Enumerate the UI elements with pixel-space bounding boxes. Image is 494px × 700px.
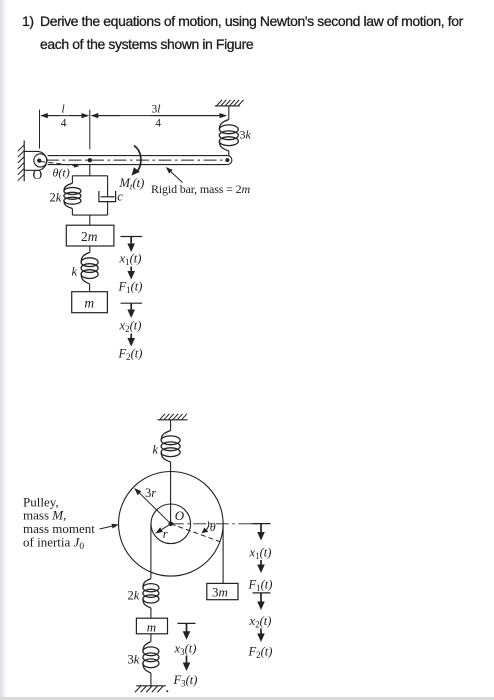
pulley inner circle xyxy=(151,504,191,544)
label F1(t) (top figure) xyxy=(118,280,143,296)
label F1(t) (bottom figure) xyxy=(248,577,273,593)
label 2k (bottom figure) xyxy=(128,589,140,603)
label r xyxy=(163,527,168,541)
theta rotation arrow xyxy=(202,522,209,534)
svg-text:4: 4 xyxy=(155,118,161,130)
wire spring 2k to mass m xyxy=(150,608,152,618)
label F2(t) (top figure) xyxy=(118,347,143,363)
arrow F3 xyxy=(183,656,191,672)
pivot pin circle O xyxy=(34,154,47,167)
spring 2k (bottom figure) xyxy=(143,579,159,608)
cord pulley inner radius to spring 2k xyxy=(150,524,152,579)
node on bar at l/4 xyxy=(88,158,92,162)
pulley center dot xyxy=(169,522,174,527)
svg-text:m: m xyxy=(147,619,156,634)
spring 3k xyxy=(219,120,238,152)
arrow F2 (bottom figure) xyxy=(257,629,265,643)
dimension line l/4 with arrows xyxy=(40,113,89,118)
label x2(t) (bottom figure) xyxy=(249,614,272,630)
mass block 3m xyxy=(207,583,238,599)
ground support hatching xyxy=(135,686,168,693)
wire node to assembly xyxy=(89,165,91,176)
label x1(t) (bottom figure) xyxy=(249,546,272,562)
svg-text:4: 4 xyxy=(61,118,67,130)
svg-text:3l: 3l xyxy=(152,104,161,116)
svg-text:2k: 2k xyxy=(50,191,62,205)
wire ceiling to spring k xyxy=(170,420,172,431)
label theta(t) xyxy=(53,166,70,180)
svg-text:r: r xyxy=(163,527,168,541)
arrow F1 (top figure) xyxy=(127,267,135,280)
damper cylinder cup xyxy=(99,191,116,202)
label x1(t) (top figure) xyxy=(119,252,142,268)
label F3(t) xyxy=(173,673,198,689)
wire assembly to mass 2m xyxy=(89,215,91,225)
svg-text:k: k xyxy=(72,264,78,278)
svg-text:F1(t): F1(t) xyxy=(118,280,143,296)
left leg to spring 2k xyxy=(71,176,73,183)
label fraction l/4 xyxy=(61,104,67,130)
svg-text:x1(t): x1(t) xyxy=(249,546,272,562)
dimension tick at l/4 point xyxy=(89,110,91,150)
label 2k xyxy=(50,191,62,205)
wire ceiling to spring 3k xyxy=(228,106,230,120)
svg-text:x1(t): x1(t) xyxy=(119,252,142,268)
svg-text:x2(t): x2(t) xyxy=(119,319,142,335)
wire spring k to mass m xyxy=(89,284,91,292)
svg-text:Rigid bar, mass = 2m: Rigid bar, mass = 2m xyxy=(151,182,250,196)
label 3m xyxy=(212,585,228,600)
arrow F2 (top figure) xyxy=(127,334,135,347)
svg-text:3r: 3r xyxy=(145,486,156,500)
svg-text:of inertia J0: of inertia J0 xyxy=(23,535,84,553)
horizontal reference dash-dot line xyxy=(171,523,258,525)
label c xyxy=(117,190,123,204)
label O xyxy=(33,167,43,182)
svg-text:θ(t): θ(t) xyxy=(53,166,70,180)
svg-text:m: m xyxy=(84,296,94,311)
label theta xyxy=(210,520,216,534)
problem statement text xyxy=(22,13,34,29)
label Rigid bar, mass = 2m xyxy=(151,182,250,196)
pulley outer circle xyxy=(119,472,224,577)
ceiling support (bottom figure) xyxy=(158,414,188,420)
label k (top figure) xyxy=(72,264,78,278)
assembly bottom rail xyxy=(72,214,107,216)
bottom page-edge shading xyxy=(0,697,494,700)
radius arrow r xyxy=(155,524,171,534)
label 2m xyxy=(81,229,98,244)
mass block m xyxy=(72,292,108,313)
pointer arrow to pulley xyxy=(100,524,119,529)
left page-edge shading xyxy=(0,0,7,700)
svg-text:O: O xyxy=(175,508,185,523)
label m xyxy=(84,296,94,311)
radius arrow 3r xyxy=(134,488,171,524)
cord pulley outer radius to mass 3m xyxy=(222,524,224,584)
left leg below spring 2k xyxy=(71,209,73,216)
label x3(t) xyxy=(174,642,197,658)
wire spring 3k to ground xyxy=(150,673,152,686)
label 3k xyxy=(240,128,252,142)
datum line for x2 (bottom figure) xyxy=(253,592,271,594)
mass block m (bottom figure) xyxy=(136,618,167,634)
label M_t(t) xyxy=(119,176,145,192)
spring 3k (bottom figure) xyxy=(143,642,159,673)
svg-text:c: c xyxy=(117,190,123,204)
svg-text:3k: 3k xyxy=(240,128,252,142)
arrow x1 (top figure) xyxy=(127,237,135,253)
arrow x2 (bottom figure) xyxy=(257,593,265,610)
datum line for x3 xyxy=(178,622,196,624)
arrow x2 (top figure) xyxy=(127,303,135,318)
svg-text:2k: 2k xyxy=(128,589,140,603)
mass block 2m xyxy=(66,225,114,246)
spring k (top figure) xyxy=(81,252,98,284)
wire 2m to spring k xyxy=(89,246,91,252)
datum line for x2 (top figure) xyxy=(121,302,143,304)
cord spring k to pulley center xyxy=(170,462,172,524)
wire mass m to spring 3k xyxy=(150,634,152,642)
label m (bottom figure) xyxy=(147,619,156,634)
label Pulley mass M mass moment of inertia J0 xyxy=(23,494,95,552)
label k (bottom figure) xyxy=(153,442,159,456)
pivot center dot xyxy=(37,159,41,163)
label 3k (bottom figure) xyxy=(128,653,140,667)
svg-text:F2(t): F2(t) xyxy=(118,347,143,363)
deflected bar dashed line with arrow (theta direction) xyxy=(41,162,80,168)
arrow x3 xyxy=(183,623,191,639)
bar right end dot xyxy=(225,158,229,162)
rigid bar outline xyxy=(48,156,232,165)
label fraction 3l/4 xyxy=(152,104,162,130)
dashed radius at angle theta xyxy=(171,524,220,542)
ceiling support (top right) xyxy=(215,100,244,106)
arrow F1 (bottom figure) xyxy=(257,560,265,573)
label F2(t) (bottom figure) xyxy=(248,644,273,660)
arrow x1 (bottom figure) xyxy=(257,524,265,541)
svg-text:x2(t): x2(t) xyxy=(249,614,272,630)
spring k (bottom figure) xyxy=(161,431,180,463)
pointer arrow to rigid bar xyxy=(166,167,183,183)
pivot bracket (clevis) xyxy=(24,151,47,170)
spring 2k xyxy=(64,183,81,208)
svg-text:3m: 3m xyxy=(212,585,228,600)
svg-text:F3(t): F3(t) xyxy=(173,673,198,689)
label x2(t) (top figure) xyxy=(119,319,142,335)
datum line for x1 (top figure) xyxy=(121,236,143,238)
damper piston xyxy=(101,196,115,198)
dimension tick at pivot xyxy=(39,110,41,149)
applied moment arc M_t(t) xyxy=(132,146,141,176)
svg-text:x3(t): x3(t) xyxy=(174,642,197,658)
wall support hatching at pivot xyxy=(18,141,24,182)
damper rod upper xyxy=(107,176,109,197)
damper rod lower xyxy=(107,202,109,216)
svg-text:θ: θ xyxy=(210,520,216,534)
wire spring 3k to bar end xyxy=(228,151,230,156)
label 3r xyxy=(145,486,156,500)
bar centerline (dash-dot) xyxy=(46,159,224,161)
dimension line 3l/4 with arrows xyxy=(91,113,227,118)
svg-text:l: l xyxy=(62,104,65,116)
svg-text:3k: 3k xyxy=(128,653,140,667)
svg-text:F2(t): F2(t) xyxy=(248,644,273,660)
datum line for x1 (bottom figure) xyxy=(252,523,271,525)
assembly top rail xyxy=(72,175,107,177)
svg-text:2m: 2m xyxy=(81,229,98,244)
svg-text:F1(t): F1(t) xyxy=(248,577,273,593)
svg-text:k: k xyxy=(153,442,159,456)
label O (pulley center) xyxy=(175,508,185,523)
svg-text:O: O xyxy=(33,167,43,182)
